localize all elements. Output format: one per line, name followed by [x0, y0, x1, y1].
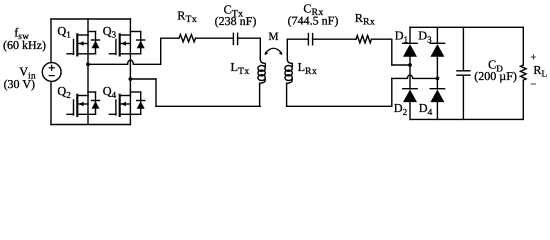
wire CD top: [462, 27, 464, 70]
wire Q2 source to rail: [87, 114, 89, 124]
wire D3 to junction: [436, 57, 438, 79]
wire to RTx: [161, 37, 179, 39]
svg-text:M: M: [268, 31, 278, 43]
wire left leg mid: [409, 65, 411, 89]
svg-text:LTx: LTx: [231, 60, 250, 77]
transistor Q3: [109, 32, 144, 56]
svg-text:D2: D2: [394, 101, 408, 117]
wire source bottom: [50, 81, 52, 124]
inductor LRx: [285, 39, 292, 106]
svg-text:D3: D3: [418, 29, 432, 45]
wire D2 bottom: [409, 102, 411, 120]
wire RRx right: [372, 38, 392, 40]
wire node B right: [130, 78, 156, 80]
capacitor CRx: [308, 34, 312, 45]
resistor RRx: [356, 36, 372, 43]
capacitor CD: [457, 71, 470, 75]
wire Tx riser up: [160, 38, 162, 64]
wire Q1 drain: [87, 19, 89, 35]
capacitor CTx: [233, 33, 237, 44]
svg-text:RL: RL: [533, 63, 547, 79]
resistor RL: [521, 65, 527, 80]
wire top rail: [51, 18, 130, 20]
wire Q3 drain: [129, 19, 131, 35]
junction rectifier left junction: [408, 63, 412, 67]
svg-text:Q3: Q3: [103, 24, 117, 40]
svg-text:Q2: Q2: [57, 84, 71, 100]
wire Q1 source to node A: [87, 54, 89, 65]
wire CD bottom: [462, 75, 464, 119]
svg-text:+: +: [530, 52, 536, 63]
resistor RTx: [179, 35, 196, 42]
diode D3: [430, 43, 444, 56]
inductor LTx: [258, 38, 265, 106]
svg-text:(744.5 nF): (744.5 nF): [288, 14, 339, 28]
svg-text:(30 V): (30 V): [4, 77, 35, 91]
wire right leg lower: [436, 78, 438, 88]
wire node B to Q4 drain: [129, 79, 131, 96]
junction node A: [86, 62, 90, 66]
wire source top: [50, 19, 52, 63]
svg-text:Q1: Q1: [57, 24, 71, 40]
wire LRx to CRx: [287, 38, 308, 40]
wire Q4 source to rail: [129, 114, 131, 124]
wire D3 top: [436, 27, 438, 43]
wire DC bottom rail: [410, 118, 523, 120]
wire RTx to CTx: [196, 37, 234, 39]
transistor Q1: [67, 32, 100, 56]
wire Rx bottom branch: [287, 105, 392, 107]
wire Tx bottom branch: [156, 105, 260, 107]
voltage source Vin: [42, 63, 61, 82]
svg-text:−: −: [530, 80, 536, 91]
svg-text:(200 µF): (200 µF): [474, 69, 517, 83]
wire D4 bottom: [436, 102, 438, 120]
junction rectifier right junction: [436, 77, 440, 81]
mutual coupling arrow M: [265, 48, 283, 55]
svg-text:RRx: RRx: [355, 11, 375, 28]
wire bottom rail: [51, 124, 130, 126]
svg-text:(238 nF): (238 nF): [215, 14, 257, 28]
wire node A to Q2 drain: [87, 64, 89, 95]
svg-text:RTx: RTx: [177, 8, 197, 25]
wire CTx to LTx: [238, 37, 261, 39]
wire Rx feed down: [391, 39, 393, 65]
wire CRx to RRx: [313, 38, 356, 40]
svg-text:Q4: Q4: [103, 84, 117, 100]
wire Tx drop: [155, 79, 157, 106]
wire D1 top: [409, 27, 411, 43]
wire D1 to junction: [409, 57, 411, 66]
transistor Q2: [67, 92, 100, 116]
wire feed to left leg: [392, 64, 410, 66]
wire RL bottom: [522, 80, 524, 119]
svg-text:LRx: LRx: [298, 60, 318, 77]
wire DC top rail: [410, 26, 523, 28]
diode D2: [403, 89, 417, 102]
svg-text:D1: D1: [395, 29, 409, 45]
wire RL top: [522, 27, 524, 65]
junction node B: [129, 77, 133, 81]
wire Q3 source to node B: [129, 54, 131, 79]
transistor Q4: [109, 92, 144, 116]
wire Rx bottom riser: [391, 78, 393, 106]
diode D4: [430, 89, 444, 102]
wire node A to Tx riser with hop: [88, 60, 161, 64]
svg-text:(60 kHz): (60 kHz): [3, 38, 46, 52]
diode D1: [403, 43, 417, 56]
wire to right leg with hop: [392, 75, 438, 78]
svg-text:D4: D4: [419, 101, 433, 117]
